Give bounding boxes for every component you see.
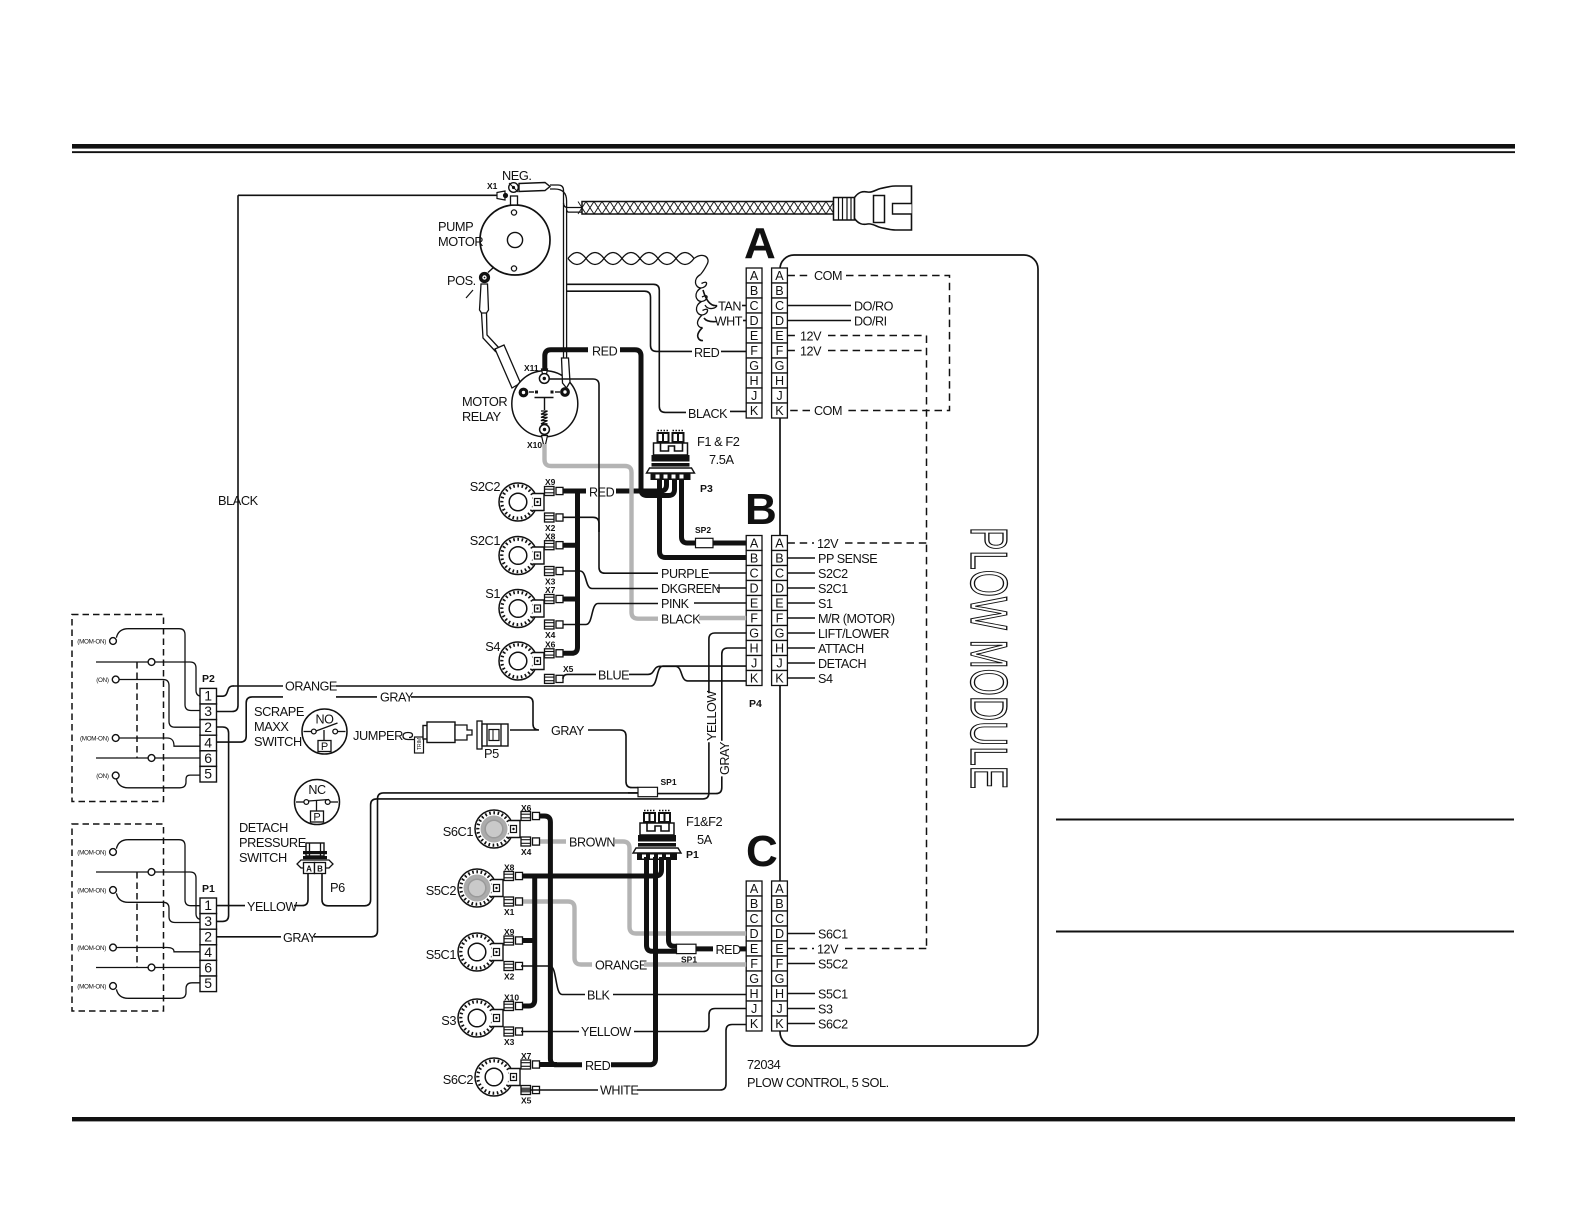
svg-text:S5C2: S5C2 (818, 958, 848, 972)
wire toggle2d to P1-4 (117, 948, 200, 952)
connector A column 1 pins A-K (746, 268, 762, 418)
svg-text:DETACH: DETACH (818, 657, 866, 671)
wire GRAY P1-2 to SP1 riser (217, 936, 282, 938)
svg-text:X4: X4 (545, 630, 556, 640)
toggle switch contact bank2 (110, 887, 117, 894)
wire ORANGE P2-1 to B-J (233, 685, 283, 687)
svg-text:BLACK: BLACK (218, 493, 259, 508)
svg-text:C: C (746, 827, 778, 876)
switch bank 1 inner dashed divider (136, 662, 138, 758)
wire black left rail from X1 to P2-3 (217, 195, 239, 711)
svg-text:A: A (775, 269, 784, 283)
thick red wire relay X11 to fuse P3 (545, 350, 588, 371)
terminal X5 (S6C2) (521, 1086, 540, 1095)
connector P1 pins 132465 (200, 897, 217, 991)
svg-text:POS.: POS. (447, 273, 476, 288)
wire S5C2 from C (787, 963, 815, 965)
svg-text:P: P (313, 812, 320, 824)
svg-text:PUMP: PUMP (438, 219, 473, 234)
switch pole link (96, 661, 148, 663)
svg-text:PLOW MODULE: PLOW MODULE (959, 527, 1017, 789)
12V dashed bus vertical (926, 336, 928, 949)
svg-text:X1: X1 (487, 181, 498, 191)
svg-text:S5C2: S5C2 (426, 883, 457, 898)
connector B column 2 pins A-K (772, 536, 788, 686)
svg-text:12V: 12V (817, 943, 839, 957)
toggle switch contact bank1 (148, 755, 155, 762)
svg-text:D: D (775, 314, 784, 328)
svg-text:S2C2: S2C2 (470, 479, 501, 494)
svg-text:S5C1: S5C1 (818, 988, 848, 1002)
svg-text:S4: S4 (485, 639, 500, 654)
svg-text:C: C (775, 299, 784, 313)
svg-text:3: 3 (204, 913, 212, 929)
terminal X4 (S6C1) (521, 837, 540, 846)
terminal X5 (545, 674, 564, 683)
svg-text:X11: X11 (524, 363, 539, 373)
motor relay K1 (512, 371, 578, 437)
svg-text:A: A (750, 269, 759, 283)
svg-text:G: G (749, 359, 759, 373)
svg-text:F: F (750, 611, 758, 625)
svg-text:6: 6 (204, 960, 212, 976)
svg-text:5: 5 (204, 766, 212, 782)
svg-text:PINK: PINK (661, 597, 690, 611)
wire COM dashed loop A-A to A-K (787, 275, 810, 277)
svg-text:MAXX: MAXX (254, 719, 289, 734)
svg-text:X8: X8 (545, 532, 556, 542)
svg-text:S6C1: S6C1 (443, 824, 474, 839)
svg-text:G: G (775, 626, 785, 640)
thick red SP1 to C-E RED (696, 946, 713, 951)
relay terminal X10 (540, 425, 550, 445)
svg-text:COM: COM (814, 269, 842, 283)
svg-text:F: F (776, 344, 784, 358)
NEG cable pair to braid and relay (550, 185, 564, 358)
terminal X2 (S5C1) (504, 962, 523, 971)
svg-text:A: A (775, 882, 784, 896)
thick red fuse P1 pin1 to splice SP1b (647, 857, 677, 951)
svg-text:X3: X3 (504, 1037, 515, 1047)
svg-text:5: 5 (204, 975, 212, 991)
svg-text:S6C2: S6C2 (818, 1018, 848, 1032)
terminal X1 (S5C2) (504, 897, 523, 906)
X1 bullet connector (497, 191, 508, 200)
svg-text:F: F (750, 344, 758, 358)
svg-text:7.5A: 7.5A (709, 452, 734, 467)
wire DETACH from B (787, 662, 815, 664)
wire P2-4 to GRAY riser (217, 697, 284, 742)
wire M/R (MOTOR) from B (787, 617, 815, 619)
terminal X6 (545, 649, 564, 658)
svg-text:1: 1 (204, 688, 212, 704)
P5 connector (477, 721, 508, 749)
svg-text:X7: X7 (545, 585, 556, 595)
svg-text:K: K (750, 671, 759, 685)
svg-text:S2C2: S2C2 (818, 567, 848, 581)
svg-text:F: F (776, 611, 784, 625)
toggle switch contact bank1 (112, 735, 119, 742)
wire S5C1 from C (787, 993, 815, 995)
svg-text:SCRAPE: SCRAPE (254, 704, 304, 719)
svg-text:D: D (775, 927, 784, 941)
POS battery cable to relay (480, 284, 521, 388)
svg-text:S3: S3 (441, 1013, 456, 1028)
terminal X10 (S3) (504, 1002, 523, 1011)
svg-text:GRAY: GRAY (283, 931, 317, 945)
wire B-G yellow down to P6 circuit (709, 633, 746, 693)
svg-text:(MOM-ON): (MOM-ON) (77, 945, 106, 952)
svg-text:RELAY: RELAY (462, 409, 502, 424)
svg-text:MOTOR: MOTOR (462, 394, 507, 409)
svg-text:X10: X10 (527, 440, 542, 450)
wire DKGREEN X3 to B-D (563, 571, 658, 589)
terminal X8 (545, 541, 564, 550)
svg-text:BLK: BLK (587, 989, 611, 1003)
terminal X3 (S3) (504, 1027, 523, 1036)
twisted pair wire to connector A (568, 253, 694, 259)
jumper plug assembly (403, 722, 472, 753)
wire S3 from C (787, 1008, 815, 1010)
svg-text:A: A (306, 865, 312, 874)
solenoid valve coil S6C1 (475, 810, 520, 848)
svg-text:3: 3 (204, 703, 212, 719)
svg-text:YELLOW: YELLOW (247, 900, 297, 914)
svg-text:BLUE: BLUE (598, 668, 629, 682)
svg-text:P: P (321, 741, 328, 753)
relay terminal X11 (539, 369, 549, 383)
svg-text:SWITCH: SWITCH (254, 734, 302, 749)
fuse P3 pin1 wire to B-B (660, 477, 747, 558)
switch bank 1 dashed enclosure (72, 615, 164, 802)
svg-text:S1: S1 (818, 597, 833, 611)
svg-text:B: B (750, 897, 758, 911)
svg-text:ORANGE: ORANGE (285, 680, 337, 694)
svg-text:D: D (750, 927, 759, 941)
toggle switch contact bank1 (112, 676, 119, 683)
svg-text:G: G (749, 626, 759, 640)
svg-text:(ON): (ON) (96, 677, 109, 684)
P6-A lead (296, 874, 308, 906)
wire B-H gray splice down to SP1 (722, 648, 746, 741)
svg-text:X9: X9 (545, 477, 556, 487)
svg-text:E: E (775, 596, 783, 610)
svg-text:12V: 12V (817, 537, 839, 551)
relay coil (541, 411, 548, 424)
svg-text:RED: RED (592, 344, 618, 358)
svg-text:C: C (775, 566, 784, 580)
svg-text:DKGREEN: DKGREEN (661, 582, 720, 596)
NEG battery lug (519, 183, 550, 192)
svg-text:X1: X1 (504, 907, 515, 917)
svg-text:2: 2 (204, 928, 212, 944)
svg-text:D: D (750, 581, 759, 595)
fuse block F1 F2 7.5A (P3) (647, 431, 695, 481)
svg-text:K: K (750, 404, 759, 418)
svg-text:H: H (750, 987, 759, 1001)
svg-text:(ON): (ON) (96, 773, 109, 780)
svg-text:S1: S1 (485, 586, 500, 601)
svg-text:TAN: TAN (718, 300, 741, 314)
switch bank 2 dashed enclosure (72, 824, 164, 1011)
svg-text:BLACK: BLACK (661, 613, 701, 627)
pump motor M1 (480, 205, 550, 275)
svg-text:2: 2 (204, 719, 212, 735)
svg-text:K: K (750, 1017, 759, 1031)
svg-text:X7: X7 (521, 1051, 532, 1061)
terminal X7 (S6C2) (521, 1060, 540, 1069)
svg-text:S3: S3 (818, 1003, 833, 1017)
svg-text:(MOM-ON): (MOM-ON) (77, 639, 106, 646)
svg-text:F1&F2: F1&F2 (686, 814, 722, 829)
svg-text:SWITCH: SWITCH (239, 850, 287, 865)
terminal X7 (545, 595, 564, 604)
svg-text:PURPLE: PURPLE (661, 567, 709, 581)
solenoid valve coil S2C2 (499, 483, 544, 521)
toggle switch contact bank2 (148, 964, 155, 971)
terminal X9 (S5C1) (504, 936, 523, 945)
toggle switch contact bank2 (110, 944, 117, 951)
fuse P3 pin4 wire to SP2 and B-A (682, 477, 696, 543)
svg-text:K: K (775, 671, 784, 685)
svg-text:DETACH: DETACH (239, 820, 288, 835)
svg-text:NEG.: NEG. (502, 168, 532, 183)
wire 12V from A-F (787, 350, 797, 352)
wire S6C1 from C (787, 933, 815, 935)
wire LIFT/LOWER from B (787, 632, 815, 634)
svg-text:G: G (749, 972, 759, 986)
svg-text:P5: P5 (484, 746, 499, 761)
connector P2 pins 132465 (200, 688, 217, 782)
svg-text:A: A (775, 536, 784, 550)
svg-text:(MOM-ON): (MOM-ON) (77, 850, 106, 857)
svg-text:H: H (775, 374, 784, 388)
svg-text:WHITE: WHITE (600, 1084, 638, 1098)
thick red X7 wire up to fuse P1 pin2 (611, 857, 656, 1065)
svg-text:C: C (750, 566, 759, 580)
svg-text:MOTOR: MOTOR (438, 234, 483, 249)
svg-text:RED: RED (716, 943, 742, 957)
svg-text:S5C1: S5C1 (426, 947, 457, 962)
scrape maxx NO switch symbol (302, 709, 347, 754)
svg-text:RED: RED (589, 486, 615, 500)
svg-text:C: C (775, 912, 784, 926)
splice SP1 lower (677, 944, 697, 953)
vehicle-side plug on braided cable (834, 186, 912, 230)
wire 12V to C-E (787, 948, 814, 950)
braided supply cable (578, 202, 834, 215)
svg-text:PRESSURE: PRESSURE (239, 835, 306, 850)
terminal X2 (545, 513, 564, 522)
svg-text:X5: X5 (563, 664, 574, 674)
wire toggle2c to P1-3 (116, 893, 200, 922)
svg-text:H: H (750, 641, 759, 655)
svg-text:4: 4 (204, 734, 212, 750)
svg-text:YELLOW: YELLOW (705, 691, 719, 741)
thick red bus S6C1 X6 to S6C2 X7 (539, 816, 582, 1065)
svg-text:J: J (751, 656, 757, 670)
svg-text:SP1: SP1 (681, 955, 697, 965)
wire 12V to B-A (787, 542, 814, 544)
svg-text:6: 6 (204, 750, 212, 766)
wire S4 from B (787, 677, 815, 679)
right margin rule 2 (1056, 931, 1514, 933)
svg-text:DO/RI: DO/RI (854, 315, 887, 329)
right margin rule 1 (1056, 819, 1514, 821)
terminal X1 ring (509, 183, 519, 205)
svg-text:B: B (317, 865, 323, 874)
wire ATTACH from B (787, 647, 815, 649)
wire P2-2 down to P1-3 (217, 727, 229, 921)
svg-text:J: J (776, 1002, 782, 1016)
svg-text:(MOM-ON): (MOM-ON) (80, 736, 109, 743)
solenoid valve coil S5C2 (458, 869, 503, 907)
svg-text:C: C (750, 299, 759, 313)
svg-text:K: K (775, 404, 784, 418)
svg-text:B: B (750, 551, 758, 565)
svg-text:BROWN: BROWN (569, 836, 615, 850)
svg-text:S2C1: S2C1 (818, 582, 848, 596)
svg-text:X8: X8 (504, 863, 515, 873)
svg-text:P1: P1 (202, 883, 215, 895)
svg-text:1: 1 (204, 897, 212, 913)
wire toggle2e to P1-6 (155, 967, 200, 969)
wire P2-1 to ORANGE (217, 686, 234, 696)
gray wire X10 to B-F BLACK (545, 444, 659, 619)
svg-text:SP2: SP2 (695, 525, 711, 535)
wire S2C1 from B (787, 587, 815, 589)
svg-text:X2: X2 (504, 972, 515, 982)
switch pole link (96, 967, 148, 969)
wire DO/RI from A-D (787, 320, 851, 322)
wire toggle1f to P2-5 (116, 775, 200, 788)
svg-text:H: H (775, 641, 784, 655)
terminal X8 (S5C2) (504, 872, 523, 881)
svg-text:B: B (745, 485, 777, 534)
wire X2 junction to purple net (563, 517, 599, 532)
wire PURPLE X11 to B-C (549, 379, 658, 573)
svg-text:DO/RO: DO/RO (854, 300, 894, 314)
svg-text:D: D (750, 314, 759, 328)
svg-text:K: K (775, 1017, 784, 1031)
NEG cable lug into relay right post (562, 358, 571, 388)
solenoid valve coil S3 (458, 999, 503, 1037)
svg-text:12V: 12V (800, 330, 822, 344)
svg-text:B: B (750, 284, 758, 298)
connector C column 2 pins A-K (772, 881, 788, 1031)
svg-text:B: B (775, 551, 783, 565)
solenoid valve coil S5C1 (458, 933, 503, 971)
svg-text:B: B (775, 897, 783, 911)
wire 12V from A-E (787, 335, 797, 337)
svg-text:(MOM-ON): (MOM-ON) (77, 984, 106, 991)
connector C column 1 pins A-K (746, 881, 762, 1031)
svg-text:RED: RED (694, 346, 720, 360)
wire black from X1 to left rail (238, 194, 497, 196)
svg-text:X9: X9 (504, 927, 515, 937)
terminal X3 (545, 567, 564, 576)
POS ring terminal (466, 267, 494, 298)
wire YELLOW X3 to C-J (521, 1031, 579, 1033)
wire RED to A-F (567, 291, 692, 351)
wire S6C2 from C (787, 1023, 815, 1025)
svg-text:J: J (776, 656, 782, 670)
svg-text:E: E (775, 329, 783, 343)
terminal X9 (545, 487, 564, 496)
terminal X6 (S6C1) (521, 812, 540, 821)
svg-text:JUMPER: JUMPER (353, 728, 403, 743)
wire toggle1c to P2-2 (119, 680, 200, 728)
wire BLUE X5 to B-K (563, 674, 596, 679)
svg-text:S6C1: S6C1 (818, 928, 848, 942)
PLOW MODULE enclosure box (780, 255, 1038, 1046)
svg-text:X6: X6 (545, 640, 556, 650)
wire YELLOW P1-1 to P6-A (217, 905, 246, 907)
svg-text:B: B (775, 284, 783, 298)
svg-text:12V: 12V (800, 345, 822, 359)
svg-text:X6: X6 (521, 803, 532, 813)
thick red bus X8 X9 X10 (521, 876, 535, 1006)
thick red X8 wire to fuse P1 pin3 (521, 857, 662, 876)
gray wire ORANGE X1 to C-F (521, 902, 592, 965)
svg-text:GRAY: GRAY (551, 724, 585, 738)
svg-text:P1: P1 (686, 849, 699, 861)
svg-text:P6: P6 (330, 880, 345, 895)
svg-text:C: C (750, 912, 759, 926)
svg-text:GRAY: GRAY (718, 741, 732, 775)
svg-text:BLACK: BLACK (688, 407, 728, 421)
svg-text:PLOW CONTROL, 5 SOL.: PLOW CONTROL, 5 SOL. (747, 1075, 889, 1090)
svg-text:E: E (775, 942, 783, 956)
svg-text:5A: 5A (697, 832, 713, 847)
switch bank 2 inner dashed divider (136, 872, 138, 967)
svg-text:SP1: SP1 (661, 777, 677, 787)
svg-text:X10: X10 (504, 993, 519, 1003)
wire toggle1a to P2 (116, 629, 200, 711)
P6 pressure switch connector (297, 843, 333, 874)
junction SP1 left lead (628, 792, 638, 794)
svg-text:H: H (775, 987, 784, 1001)
thick red bus S2C2..S4 (557, 491, 578, 653)
thick red fuse P1 pin4 to splice SP1b (669, 857, 677, 946)
wire TAN to A-C (703, 290, 717, 306)
wire toggle2a to P1 (116, 840, 200, 906)
svg-text:A: A (744, 219, 776, 268)
detach pressure NC switch symbol (295, 780, 340, 825)
toggle switch contact bank2 (110, 983, 117, 990)
svg-text:4: 4 (204, 944, 212, 960)
svg-text:F: F (776, 957, 784, 971)
svg-text:E: E (750, 596, 758, 610)
svg-text:F1 & F2: F1 & F2 (697, 434, 740, 449)
toggle switch contact bank1 (112, 772, 119, 779)
svg-text:F: F (750, 957, 758, 971)
svg-text:ORANGE: ORANGE (595, 959, 647, 973)
switch pole link (96, 757, 148, 759)
svg-text:(MOM-ON): (MOM-ON) (77, 888, 106, 895)
top border double rule (72, 144, 1515, 153)
toggle switch contact bank1 (110, 638, 117, 645)
svg-text:X5: X5 (521, 1096, 532, 1106)
wire DO/RO from A-C (787, 305, 851, 307)
svg-text:ATTACH: ATTACH (818, 642, 864, 656)
svg-text:X4: X4 (521, 847, 532, 857)
connector B column 1 pins A-K (746, 536, 762, 686)
wire S2C2 from B (787, 572, 815, 574)
wire toggle1d to P2-4 (119, 738, 200, 746)
wire PINK X4 to B-E (563, 604, 658, 625)
wire toggle2b to P1-1 (155, 872, 202, 920)
